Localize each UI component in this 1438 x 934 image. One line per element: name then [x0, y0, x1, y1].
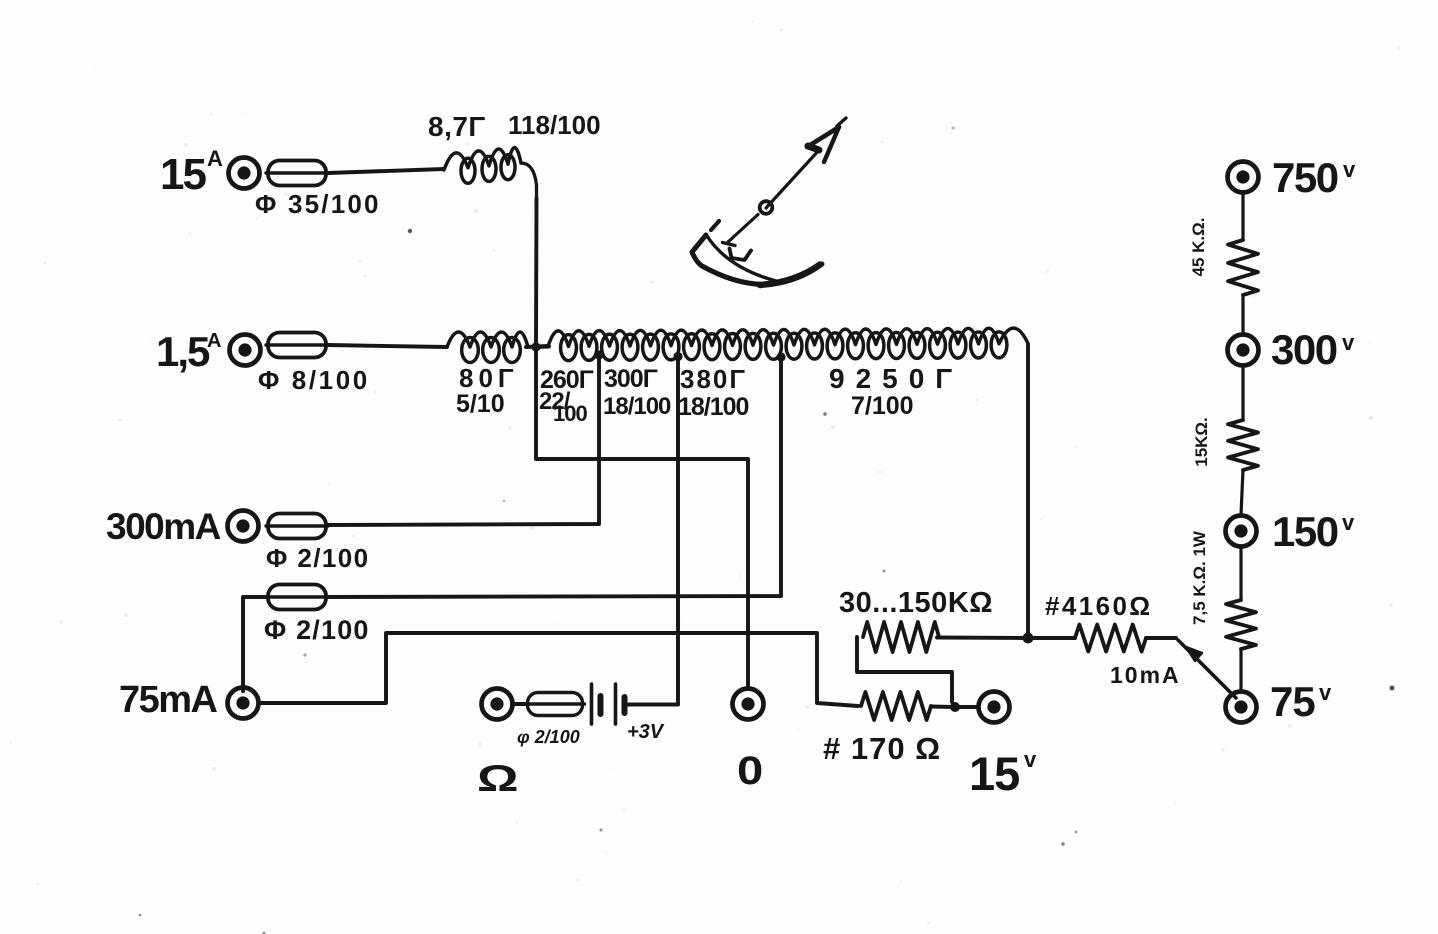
- meter scale arc inner: [707, 236, 776, 281]
- label 300mA: [106, 506, 221, 547]
- fuse F3 Φ2/100: [266, 514, 328, 539]
- svg-text:750: 750: [1272, 154, 1338, 201]
- label 9250Γ 7/100: [829, 363, 963, 420]
- meter frame bracket: [692, 235, 706, 266]
- label Φ35/100: [255, 189, 381, 219]
- svg-text:45 K.Ω.: 45 K.Ω.: [1189, 218, 1208, 277]
- terminal 75V: [1226, 692, 1257, 723]
- meter needle: [723, 149, 821, 246]
- wire 0 terminal to junction: [536, 349, 748, 688]
- wire junction to main coil: [536, 345, 549, 349]
- label 45KΩ: [1189, 218, 1208, 277]
- svg-text:#4160Ω: #4160Ω: [1045, 591, 1153, 621]
- label 300Γ 18/100: [603, 365, 671, 420]
- wire R15K to 150V: [1241, 470, 1243, 515]
- label 1,5A: [156, 328, 221, 375]
- svg-text:7,5 K.Ω. 1W: 7,5 K.Ω. 1W: [1190, 530, 1209, 625]
- label 150V: [1272, 508, 1355, 555]
- wire 150V to R7.5K: [1239, 547, 1242, 600]
- wire J1 to 15V terminal: [955, 705, 978, 709]
- label 15A: [160, 146, 223, 199]
- fuse F4 Φ2/100: [266, 585, 328, 610]
- svg-text:Φ 35/100: Φ 35/100: [255, 189, 381, 219]
- resistor 45KΩ: [1228, 240, 1258, 295]
- svg-text:1,5: 1,5: [156, 328, 210, 375]
- label 750V: [1272, 154, 1356, 201]
- terminal Ω: [482, 689, 513, 720]
- wire 300mA fuse to tap: [328, 358, 599, 525]
- svg-text:0: 0: [737, 748, 763, 793]
- node junction 1,5A/8,7Γ: [531, 342, 540, 351]
- label 7,5KΩ 1W: [1190, 530, 1209, 625]
- svg-text:Φ 8/100: Φ 8/100: [258, 365, 370, 395]
- svg-text:80Γ: 80Γ: [459, 363, 519, 393]
- svg-text:18/100: 18/100: [678, 393, 749, 421]
- label 10mA: [1110, 662, 1181, 688]
- meter scale arc outer: [702, 264, 822, 285]
- svg-text:100: 100: [553, 401, 587, 426]
- label 0 terminal: [737, 748, 763, 793]
- wire coil 8,7Γ down to junction: [534, 198, 538, 345]
- svg-text:v: v: [1342, 510, 1355, 535]
- battery B1 +3V: [592, 684, 625, 724]
- terminal 150V: [1226, 516, 1257, 547]
- terminal 300V: [1228, 335, 1259, 366]
- resistor 7,5KΩ 1W: [1226, 600, 1256, 649]
- label 75V: [1270, 678, 1332, 725]
- svg-text:18/100: 18/100: [603, 393, 671, 420]
- label 75mA: [119, 679, 218, 721]
- svg-text:v: v: [1319, 680, 1332, 705]
- svg-text:# 170 Ω: # 170 Ω: [823, 731, 941, 766]
- wire R45K to 300V: [1241, 295, 1244, 334]
- label 8,7Γ 118/100: [428, 110, 601, 142]
- svg-text:Φ 2/100: Φ 2/100: [264, 615, 370, 645]
- svg-text:+3V: +3V: [627, 721, 665, 743]
- node tap 300Γ: [673, 352, 682, 361]
- terminal 1,5A: [230, 335, 261, 366]
- label 300V: [1271, 326, 1355, 373]
- svg-text:300: 300: [1271, 326, 1337, 373]
- wire #4160 to selector: [1146, 636, 1176, 640]
- wire ohm terminal to fuse: [512, 702, 528, 706]
- label +3V: [627, 721, 665, 743]
- wire 750V to R45K: [1241, 193, 1244, 240]
- svg-text:118/100: 118/100: [508, 110, 601, 140]
- svg-text:7/100: 7/100: [851, 392, 914, 420]
- label 15V terminal: [969, 747, 1037, 800]
- svg-text:300mA: 300mA: [106, 506, 221, 547]
- resistor 15KΩ: [1228, 420, 1258, 470]
- terminal 15V: [979, 692, 1010, 723]
- label Ω terminal: [477, 757, 519, 799]
- wire R170 to J1: [931, 705, 953, 709]
- wire coil end down to J2: [1026, 345, 1030, 636]
- svg-text:Ω: Ω: [477, 757, 519, 799]
- svg-text:8,7Γ: 8,7Γ: [428, 111, 486, 142]
- resistor #4160Ω: [1028, 625, 1146, 652]
- wire 1,5A fuse to coil: [328, 345, 447, 347]
- svg-text:300Γ: 300Γ: [604, 365, 658, 393]
- coil 8,7Γ: [444, 148, 537, 200]
- svg-text:v: v: [1024, 747, 1037, 772]
- wire 80Γ to junction: [526, 346, 548, 347]
- meter needle arrowhead: [807, 118, 846, 162]
- label #170Ω: [823, 731, 941, 766]
- fuse F2 Φ8/100: [266, 333, 328, 358]
- svg-text:30...150KΩ: 30...150KΩ: [839, 587, 993, 619]
- label 380Γ 18/100: [678, 364, 749, 421]
- label 260Γ 22/100: [539, 366, 594, 426]
- wire fuse F4 to coil tap: [326, 359, 781, 597]
- wire 300V to R15K: [1241, 366, 1244, 420]
- fuse F1 Φ35/100: [266, 161, 328, 186]
- svg-text:9250Γ: 9250Γ: [829, 363, 963, 394]
- svg-text:380Γ: 380Γ: [680, 364, 747, 394]
- wire 30...150K to node: [937, 636, 1026, 640]
- wire R7.5K to 75V: [1239, 649, 1242, 691]
- label 30...150KΩ: [839, 587, 993, 619]
- svg-text:15: 15: [969, 747, 1019, 800]
- svg-text:15: 15: [160, 150, 206, 199]
- svg-text:Φ 2/100: Φ 2/100: [266, 543, 369, 573]
- fuse F5 φ2/100: [526, 693, 585, 716]
- wire 75mA to R170 corner: [259, 633, 858, 706]
- label 15KΩ: [1192, 417, 1211, 467]
- wire battery to coil tap 300Γ: [628, 359, 678, 705]
- label Φ2/100 (F3): [266, 543, 369, 573]
- label Φ8/100: [258, 365, 370, 395]
- label φ2/100 (F5): [517, 727, 580, 747]
- svg-text:φ 2/100: φ 2/100: [517, 727, 580, 747]
- terminal 75mA: [228, 688, 259, 719]
- svg-text:150: 150: [1272, 508, 1338, 555]
- terminal 300mA: [228, 511, 259, 542]
- selector arm to 75V: [1178, 640, 1236, 698]
- terminal 0: [733, 689, 764, 720]
- label #4160Ω: [1045, 591, 1153, 621]
- node tap 380Γ: [776, 352, 785, 361]
- terminal 15A: [229, 158, 260, 189]
- label Φ2/100 (F4): [264, 615, 370, 645]
- svg-text:v: v: [1343, 157, 1356, 182]
- svg-text:A: A: [207, 146, 223, 171]
- node junction J1: [950, 702, 960, 712]
- coil main winding: [548, 328, 1028, 361]
- svg-text:75: 75: [1270, 678, 1315, 725]
- svg-text:75mA: 75mA: [119, 679, 218, 721]
- meter frame bracket tick: [711, 221, 719, 230]
- terminal 750V: [1228, 162, 1259, 193]
- svg-text:5/10: 5/10: [456, 390, 505, 418]
- svg-text:15KΩ.: 15KΩ.: [1192, 417, 1211, 467]
- coil 80Γ: [447, 332, 528, 363]
- wire 75mA branch to fuse F4: [243, 597, 268, 691]
- meter pivot: [760, 201, 773, 214]
- svg-text:A: A: [207, 330, 221, 352]
- wire 15A fuse to coil: [328, 169, 444, 173]
- svg-text:10mA: 10mA: [1110, 662, 1181, 688]
- label 80Γ: [456, 363, 519, 418]
- resistor 30...150KΩ: [857, 622, 952, 702]
- resistor #170Ω: [861, 692, 931, 720]
- meter coil foot: [730, 249, 752, 261]
- svg-text:v: v: [1342, 330, 1355, 355]
- node main junction J2: [1023, 633, 1034, 644]
- node tap 260Γ: [594, 350, 603, 359]
